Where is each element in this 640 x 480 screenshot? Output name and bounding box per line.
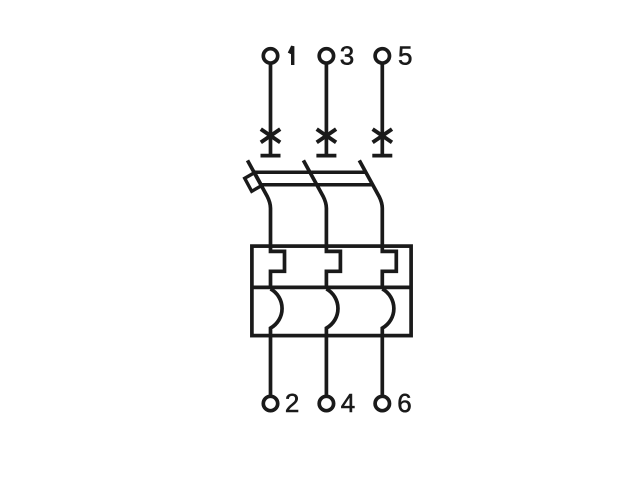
magnetic trip pole3: [382, 289, 394, 395]
wire pole1 top: [269, 63, 273, 157]
fixed contact bar pole2: [316, 154, 336, 158]
breaker contact X pole2: [317, 129, 336, 142]
thermal overload pole2: [326, 246, 340, 287]
terminal 4: [319, 396, 333, 410]
moving blade pole2: [303, 160, 326, 246]
mechanical linkage bar bottom: [261, 183, 373, 187]
breaker contact X pole3: [373, 129, 392, 142]
magnetic trip pole1: [271, 289, 283, 395]
terminal 2: [263, 396, 277, 410]
svg-text:2: 2: [285, 388, 299, 418]
terminal 6: [375, 396, 389, 410]
magnetic trip pole2: [326, 289, 338, 395]
svg-text:6: 6: [397, 388, 411, 418]
svg-text:4: 4: [341, 388, 355, 418]
box divider: [252, 286, 411, 290]
terminal 3: [319, 49, 333, 63]
wire pole2 top: [325, 63, 329, 157]
thermal overload pole1: [271, 246, 285, 287]
svg-text:3: 3: [340, 41, 354, 71]
trip unit box: [252, 246, 411, 336]
terminal 5: [375, 49, 389, 63]
svg-text:5: 5: [398, 41, 412, 71]
wire pole3 top: [380, 63, 384, 157]
fixed contact bar pole3: [372, 154, 392, 158]
moving blade pole1: [248, 160, 271, 246]
label 1: [289, 46, 292, 65]
terminal 1: [263, 49, 277, 63]
moving blade pole3: [359, 160, 382, 246]
breaker contact X pole1: [261, 129, 280, 142]
handle parallelogram: [245, 173, 262, 192]
fixed contact bar pole1: [261, 154, 281, 158]
mechanical linkage bar top: [254, 171, 366, 175]
thermal overload pole3: [382, 246, 396, 287]
